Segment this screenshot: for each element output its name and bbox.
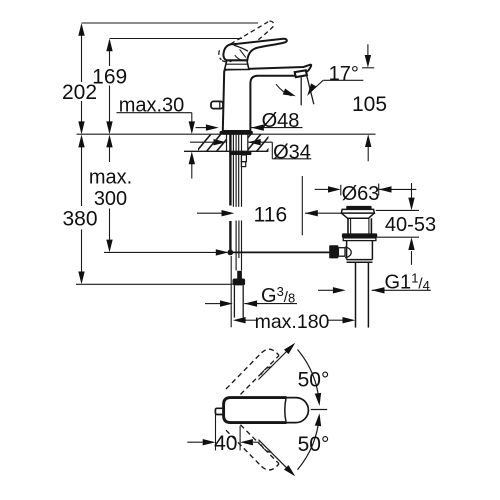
17deg left arc	[276, 84, 292, 96]
380 arrows	[78, 135, 84, 148]
dimension 380 line	[81, 137, 83, 206]
svg-text:40: 40	[214, 432, 237, 455]
mounting hole edges	[227, 134, 248, 151]
dimension 116 line	[197, 212, 223, 214]
junction node	[227, 250, 233, 256]
116 arrows	[222, 210, 235, 216]
horizontal pop-up rod to drain	[230, 251, 329, 253]
drain plug cap	[346, 206, 371, 210]
dimension max.180 line	[246, 319, 257, 321]
top view centerline	[311, 409, 327, 411]
arrowheads for dimensions	[78, 23, 414, 323]
top view dashed swung lever upper	[226, 349, 279, 400]
svg-text:380: 380	[62, 208, 97, 231]
diameter63 arrows	[328, 186, 341, 192]
top view dashed swung lever lower	[226, 419, 279, 470]
top view lever divider	[285, 398, 286, 422]
drain lower body	[347, 241, 373, 263]
dimension max.300 line	[109, 137, 111, 162]
escutcheon	[225, 60, 249, 69]
max.180 left extension line	[230, 256, 232, 327]
max.180 arrows	[233, 317, 246, 323]
dimension 40-53 arrow shafts	[411, 183, 413, 198]
hose crimp end	[237, 271, 242, 279]
svg-text:Ø34: Ø34	[273, 141, 311, 163]
diameter34 arrows	[214, 139, 227, 145]
202 arrows	[78, 23, 84, 36]
105 arrows	[365, 55, 371, 68]
dimension diameter34 leader	[190, 141, 214, 143]
drain neck	[341, 213, 374, 218]
svg-text:169: 169	[92, 66, 127, 89]
169 arrows	[106, 39, 112, 52]
lever handle	[223, 39, 286, 61]
40 dimension extension lines	[187, 411, 259, 450]
svg-text:Ø48: Ø48	[262, 110, 300, 132]
svg-text:max.: max.	[89, 167, 132, 189]
116 right extension line	[301, 176, 303, 235]
svg-text:G11/4: G11/4	[385, 271, 430, 294]
pull-rod knob	[211, 101, 223, 108]
diameter63 extension ticks	[340, 185, 342, 196]
faucet body and spout	[223, 65, 311, 131]
50deg arc lower	[298, 416, 320, 470]
dimension 105 arrows shafts	[367, 44, 369, 56]
dimension 17deg leader	[323, 79, 363, 81]
svg-text:50°: 50°	[298, 433, 330, 456]
17deg arc arrows	[283, 89, 297, 100]
dimension diameter63 line	[315, 188, 329, 190]
aerator	[295, 70, 307, 77]
supply hoses below deck	[233, 134, 241, 270]
hose connection steps	[241, 155, 246, 167]
top view lever grip outline	[224, 398, 287, 423]
drain tailpipe	[356, 262, 369, 327]
drain lock collar	[342, 233, 377, 238]
svg-text:max.30: max.30	[119, 94, 185, 116]
max.30 arrows	[189, 121, 195, 134]
dimension max.30 leader	[117, 112, 192, 114]
diameter48 arrows	[206, 124, 219, 130]
40-53 arrows	[408, 198, 414, 211]
deck bottom line	[184, 150, 268, 152]
spout stream reference lines	[300, 77, 302, 105]
shank nut	[229, 152, 251, 155]
extension line top (202 upper)	[82, 22, 259, 24]
top view lever handle silhouette	[224, 398, 309, 423]
extension line 169 upper	[110, 38, 243, 40]
50deg boundary line upper	[259, 345, 294, 380]
dimension G1 1/4 line	[318, 289, 334, 291]
faucet base plate	[220, 131, 253, 135]
G1 1/4 arrows	[333, 287, 346, 293]
svg-text:50°: 50°	[298, 369, 330, 392]
svg-text:40-53: 40-53	[385, 214, 436, 236]
rod ball joint arc	[345, 247, 351, 258]
raised lever dashed outline	[219, 21, 274, 62]
svg-text:max.180: max.180	[255, 311, 330, 333]
50deg arc upper	[298, 350, 320, 404]
svg-text:105: 105	[352, 93, 387, 116]
dimension 40-53 extension lines	[376, 209, 419, 211]
dimension 202 line	[81, 25, 83, 82]
top view lever tab	[215, 408, 225, 414]
max.300 junction arrow	[216, 249, 229, 255]
dimension G3/8 line	[205, 303, 221, 305]
deck hatching	[196, 134, 311, 152]
max.300 arrows	[106, 135, 112, 148]
G3/8 fitting nut	[233, 279, 246, 286]
svg-text:116: 116	[254, 204, 287, 227]
top view lever cap outline	[286, 398, 308, 423]
dimension diameter48 line	[196, 127, 208, 129]
G3/8 arrows	[220, 300, 233, 306]
svg-text:17°: 17°	[329, 63, 359, 85]
hose below fitting	[234, 285, 243, 317]
drain body	[348, 218, 371, 233]
380 bottom extension line	[76, 283, 233, 285]
deck top extension line	[77, 133, 376, 135]
lever internal lines	[234, 45, 248, 51]
50deg arrows	[284, 341, 298, 355]
drain flange	[341, 209, 374, 213]
dimension 169 line	[109, 41, 111, 67]
svg-text:Ø63: Ø63	[342, 183, 380, 205]
50deg boundary line lower	[259, 440, 294, 475]
svg-text:300: 300	[94, 188, 127, 210]
dimension 105 extension line at spout outlet	[362, 67, 374, 69]
max.300 bottom line	[104, 251, 227, 253]
rod connector block	[329, 245, 338, 258]
pop-up rod vertical	[229, 134, 231, 205]
